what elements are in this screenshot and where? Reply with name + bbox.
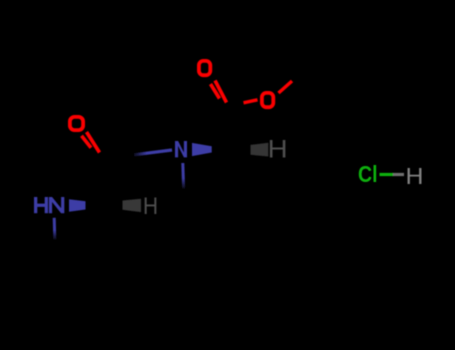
svg-text:H: H [268,136,288,164]
svg-text:H: H [143,193,158,220]
svg-text:H: H [406,163,424,189]
svg-text:Cl: Cl [358,161,378,187]
